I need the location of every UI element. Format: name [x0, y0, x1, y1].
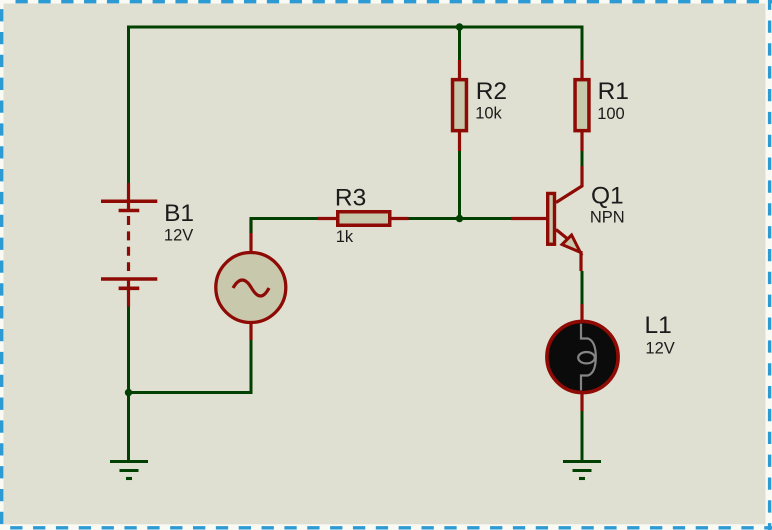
- battery B1: [101, 183, 157, 307]
- junction node: top rail / R2: [456, 23, 463, 30]
- label L1: [645, 312, 672, 339]
- svg-text:B1: B1: [164, 200, 194, 227]
- transistor Q1: [511, 166, 582, 271]
- value 12V (battery): [164, 227, 193, 245]
- lamp L1: [547, 304, 618, 411]
- value NPN: [590, 209, 625, 227]
- wire: R1 bottom vertical to collector: [581, 151, 584, 166]
- wire: green stub above sine source: [250, 219, 253, 234]
- sine voltage source: [216, 219, 286, 341]
- value 12V (lamp): [645, 339, 674, 357]
- ground (left): [110, 462, 148, 479]
- label R1: [598, 78, 629, 105]
- value 1k: [336, 228, 354, 246]
- value 100: [597, 105, 625, 123]
- resistor R2: [453, 60, 467, 151]
- svg-text:12V: 12V: [645, 339, 674, 357]
- svg-text:10k: 10k: [475, 105, 502, 123]
- wire: left vertical from top rail down to battery: [127, 26, 130, 184]
- wire: from sine source top corner to R3 left: [251, 219, 318, 234]
- junction node: bottom rail / battery: [125, 389, 132, 396]
- svg-text:Q1: Q1: [591, 182, 624, 209]
- svg-text:NPN: NPN: [590, 209, 625, 227]
- label B1: [164, 200, 194, 227]
- wire: lamp bottom vertical to ground: [581, 411, 584, 461]
- wire: R1 top vertical from top rail: [581, 27, 584, 60]
- wire: sine source bottom vertical: [250, 340, 253, 394]
- wire: emitter vertical to lamp: [581, 271, 584, 304]
- svg-text:R2: R2: [476, 78, 507, 105]
- svg-text:1k: 1k: [336, 228, 354, 246]
- wire: base horizontal from R3 to Q1: [409, 217, 512, 220]
- svg-text:R1: R1: [598, 78, 629, 105]
- wire: bottom rail from battery to sine source: [129, 391, 253, 394]
- wire: top rail from left corner to R1 top: [127, 26, 584, 29]
- svg-text:12V: 12V: [164, 227, 193, 245]
- svg-text:100: 100: [597, 105, 625, 123]
- wire: battery bottom vertical to ground: [127, 306, 130, 461]
- label R3: [335, 185, 366, 212]
- resistor R1: [575, 60, 589, 151]
- label Q1: [591, 182, 624, 209]
- wire: R2 top vertical from top rail: [458, 27, 461, 60]
- svg-text:R3: R3: [335, 185, 366, 212]
- svg-text:L1: L1: [645, 312, 672, 339]
- ground (right): [563, 462, 601, 479]
- resistor R3: [318, 212, 409, 226]
- label R2: [476, 78, 507, 105]
- wire: R2 bottom vertical to base node: [458, 151, 461, 219]
- junction node: base wire / R2: [456, 215, 463, 222]
- value 10k: [475, 105, 502, 123]
